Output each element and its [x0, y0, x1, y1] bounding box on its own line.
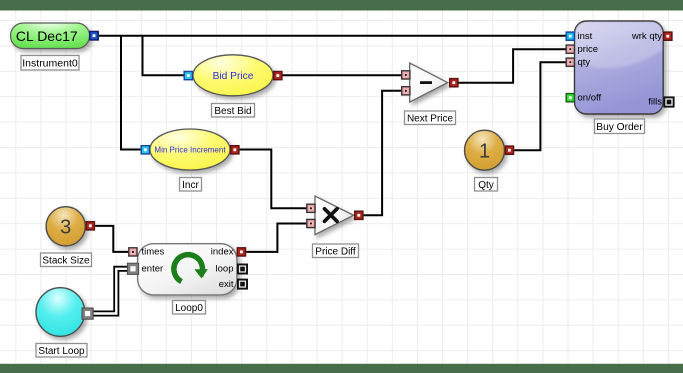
wire: Bid Price out to Next Price in1: [281, 74, 402, 76]
label Stack Size: [41, 253, 92, 267]
wire: Next Price out to Buy Order price: [458, 49, 567, 82]
svg-text:index: index: [211, 247, 234, 258]
wire: branch down to Min Price Increment input: [121, 36, 142, 150]
block Bid Price: [193, 55, 273, 96]
port: Buy Order inst input: [565, 31, 575, 41]
svg-text:wrk qty: wrk qty: [631, 31, 662, 42]
wire: Min Price Increment out to Price Diff in1: [238, 150, 307, 209]
svg-text:fills: fills: [648, 97, 662, 108]
svg-text:on/off: on/off: [578, 92, 602, 103]
port: Loop0 index output: [237, 247, 247, 257]
port: Qty output: [505, 145, 515, 155]
port: Buy Order price input: [565, 44, 575, 54]
wire: Stack Size out to Loop0 times: [94, 226, 129, 252]
wire: Price Diff out to Next Price in2: [363, 91, 403, 216]
svg-text:price: price: [578, 44, 599, 55]
svg-text:enter: enter: [142, 264, 164, 275]
wire: Instrument0 out to Buy Order inst: [97, 35, 566, 37]
loop arrow icon: [174, 255, 208, 282]
multiply symbol: [325, 209, 338, 222]
svg-text:Next Price: Next Price: [407, 114, 454, 125]
label Best Bid: [212, 104, 255, 118]
port: Buy Order on/off input: [565, 93, 575, 103]
label Start Loop: [36, 344, 87, 358]
svg-text:Best Bid: Best Bid: [214, 106, 251, 117]
block Start Loop button: [36, 288, 85, 337]
svg-text:1: 1: [479, 140, 490, 162]
label Instrument0: [21, 56, 79, 71]
port: Min Price Increment input: [140, 145, 150, 155]
svg-text:Incr: Incr: [182, 180, 199, 191]
svg-text:times: times: [142, 247, 165, 258]
minus symbol: [420, 81, 432, 84]
top toolbar strip: [0, 0, 683, 11]
port: Loop0 times input: [128, 247, 138, 257]
instrument block CL Dec17: [11, 23, 90, 49]
port: Bid Price input: [183, 71, 193, 81]
label Incr: [180, 178, 202, 192]
label Loop0: [173, 301, 206, 315]
block Loop0: [138, 244, 237, 295]
port: Buy Order wrk qty output: [663, 31, 673, 41]
port: Buy Order qty input: [565, 57, 575, 67]
port: Next Price in2: [401, 86, 411, 96]
svg-text:loop: loop: [216, 264, 234, 275]
label Next Price: [405, 111, 456, 125]
svg-text:qty: qty: [578, 57, 591, 68]
port: Stack Size output: [85, 221, 95, 231]
label Qty: [475, 178, 498, 192]
svg-text:3: 3: [60, 216, 71, 238]
svg-text:Qty: Qty: [478, 180, 494, 191]
label Buy Order: [595, 119, 645, 134]
bottom toolbar strip: [0, 364, 683, 373]
svg-text:Min Price Increment: Min Price Increment: [154, 146, 226, 155]
wire: Loop0 index out to Price Diff in2: [245, 224, 307, 252]
block Next Price subtractor: [410, 63, 448, 102]
block Price Diff multiplier: [315, 196, 354, 235]
block Qty constant 1: [465, 130, 505, 170]
label Price Diff: [313, 244, 359, 258]
block Min Price Increment: [150, 129, 230, 170]
svg-text:Stack Size: Stack Size: [42, 256, 90, 267]
svg-text:Start Loop: Start Loop: [38, 346, 85, 357]
port: Price Diff in1: [306, 203, 316, 213]
svg-text:Loop0: Loop0: [175, 303, 203, 314]
svg-text:CL Dec17: CL Dec17: [16, 28, 78, 44]
port: Start Loop output (discrete): [82, 308, 93, 319]
port: Min Price Increment output: [230, 145, 240, 155]
svg-text:Price Diff: Price Diff: [315, 247, 356, 258]
port: Price Diff in2: [306, 219, 316, 229]
svg-text:Buy Order: Buy Order: [596, 122, 643, 133]
svg-text:exit: exit: [219, 279, 234, 290]
port: Bid Price output: [273, 71, 283, 81]
port: Loop0 exit output (discrete): [237, 279, 248, 290]
port: Loop0 enter input (discrete): [127, 263, 138, 274]
port: Next Price in1: [401, 70, 411, 80]
port: Loop0 loop output (discrete): [237, 264, 248, 275]
svg-text:inst: inst: [578, 31, 593, 42]
wire: Qty out to Buy Order qty: [513, 62, 566, 150]
gloss highlight on Buy Order: [576, 23, 662, 69]
wire: branch down to Bid Price input: [143, 36, 185, 76]
port: Next Price output: [449, 78, 459, 88]
svg-text:Instrument0: Instrument0: [22, 58, 78, 70]
svg-text:Bid Price: Bid Price: [213, 71, 254, 82]
port: Price Diff output: [354, 210, 364, 220]
port: Instrument0 output: [89, 31, 99, 41]
block Buy Order: [575, 21, 664, 114]
block Stack Size constant 3: [46, 207, 85, 246]
port: Buy Order fills output (discrete): [663, 96, 674, 107]
wire: Start Loop out to Loop0 enter (discrete double line): [91, 269, 129, 314]
